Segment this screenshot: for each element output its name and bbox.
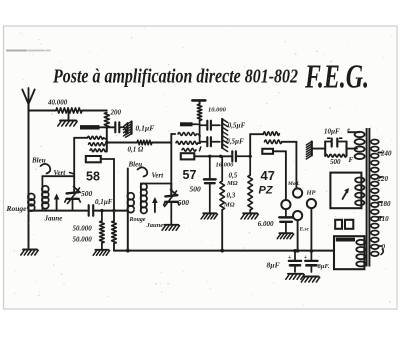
resistor R1 40.000 <box>47 99 82 114</box>
svg-text:10.000: 10.000 <box>208 107 227 114</box>
svg-text:+: + <box>304 255 308 261</box>
svg-text:0,3: 0,3 <box>227 192 236 200</box>
svg-text:Mod.: Mod. <box>287 181 300 187</box>
ground G5 stage2 <box>162 225 179 231</box>
chassis hatch tone <box>306 142 312 160</box>
label 8uF left <box>267 261 280 270</box>
svg-text:0,5µF: 0,5µF <box>228 122 246 130</box>
svg-text:58: 58 <box>86 170 100 184</box>
svg-text:240: 240 <box>380 150 392 158</box>
wire coil top link stage1 <box>42 175 74 177</box>
speaker box thick bar <box>336 238 355 242</box>
wire R1 to node <box>82 110 107 112</box>
label 0,5uF lower <box>226 138 244 146</box>
svg-text:0,1µF: 0,1µF <box>136 124 155 133</box>
label 10uF <box>324 128 350 136</box>
label Rouge stage1 <box>6 204 28 213</box>
tube 47 screen box <box>262 149 273 154</box>
label 16.000 <box>216 162 235 169</box>
label 0,5 MΩ <box>226 172 238 188</box>
svg-text:47: 47 <box>261 168 275 183</box>
label 0,5uF upper <box>228 122 246 130</box>
svg-text:110: 110 <box>379 215 390 223</box>
tap 180 <box>378 200 391 208</box>
label 6.000 <box>258 220 274 228</box>
pin square b <box>345 220 353 229</box>
svg-text:PZ: PZ <box>259 185 274 197</box>
label Jaune stage2 <box>146 222 164 229</box>
wire C2 to stage2 <box>93 209 128 212</box>
capacitor C6 cathode 57 <box>204 179 216 212</box>
speaker winding <box>356 240 365 267</box>
svg-text:0,5µF: 0,5µF <box>226 138 244 146</box>
ground G7 <box>241 213 258 219</box>
svg-text:Vert: Vert <box>152 172 165 180</box>
label 500 VC1 <box>81 189 93 198</box>
mains secondary winding <box>371 140 379 257</box>
output transformer primary <box>348 132 364 159</box>
label HP <box>306 190 317 197</box>
tuning coil secondary stage1 <box>42 176 49 210</box>
label 500 VC2 <box>178 198 190 207</box>
filter cap 8uF left <box>288 251 301 272</box>
tube 58 label <box>86 170 100 184</box>
svg-text:MΩ: MΩ <box>226 180 238 187</box>
ground bus <box>114 249 334 253</box>
jack A <box>281 200 290 209</box>
plate choke scribble 47 <box>263 132 281 144</box>
label 0,1uF C1 <box>136 124 155 133</box>
tube 57 label <box>183 168 197 182</box>
plate scribbles stage2 <box>171 133 201 152</box>
resistor R3 0,1 ohm <box>128 140 153 153</box>
wire stage2 grid vertical <box>170 134 172 195</box>
ground G3 <box>93 250 109 256</box>
svg-text:50.000: 50.000 <box>73 225 93 233</box>
mains hatched bar <box>222 119 228 152</box>
tap 220 <box>377 175 389 183</box>
label Vert stage1 <box>54 169 75 177</box>
svg-text:8µF: 8µF <box>267 261 280 270</box>
wire V3 stage2 left vertical <box>126 169 130 253</box>
label Vert stage2 <box>152 172 165 180</box>
lead curl Bleu stage1 <box>41 164 51 174</box>
capacitor C3 0,5uF upper <box>207 121 220 130</box>
svg-text:180: 180 <box>380 200 391 208</box>
rectifier winding <box>355 178 364 206</box>
capacitor C7 6.000 <box>279 217 293 232</box>
svg-text:40.000: 40.000 <box>47 99 68 107</box>
svg-text:F: F <box>349 156 354 164</box>
resistor R6 10.000 <box>197 104 226 121</box>
speaker box <box>334 236 364 269</box>
resistor R7 0,5M <box>220 156 225 252</box>
wire antenna to R1 <box>29 110 57 112</box>
resistor R8 0,3M <box>248 156 253 212</box>
hatched electrode C1 <box>124 122 132 138</box>
resistor R2 200 <box>104 109 121 128</box>
label 500 cathode 57 <box>190 185 202 194</box>
jack C <box>293 211 302 220</box>
svg-text:8µF.: 8µF. <box>318 263 330 270</box>
jack B <box>293 188 302 197</box>
wire grid vertical stage1 <box>73 138 75 176</box>
label PZ <box>259 185 274 197</box>
jack D HP <box>307 199 316 208</box>
rectifier arrow <box>343 188 350 199</box>
wire chassis to tone box <box>312 148 325 150</box>
resistor R5 50.000 lower <box>112 221 117 251</box>
filter cap 8uF right <box>304 251 318 272</box>
faint header microtext <box>7 49 50 51</box>
label E.sc <box>299 227 310 233</box>
tube 58 grid box <box>86 156 101 162</box>
svg-text:0,1µF: 0,1µF <box>95 198 113 206</box>
wire R6 down <box>200 121 206 142</box>
wire plate 57 to C5 <box>194 155 231 158</box>
svg-text:6.000: 6.000 <box>258 220 274 228</box>
svg-text:F.E.G.: F.E.G. <box>304 59 369 96</box>
svg-text:Jaune: Jaune <box>44 215 63 223</box>
svg-text:220: 220 <box>377 175 389 183</box>
tube 47 label <box>261 168 275 183</box>
svg-text:Rouge: Rouge <box>129 217 146 223</box>
svg-text:57: 57 <box>183 168 197 182</box>
wire jack D to bus <box>310 208 314 253</box>
cathode 57 vertical <box>209 156 211 178</box>
label Bleu stage2 <box>128 161 143 169</box>
earth tee <box>192 100 205 104</box>
variable capacitor VC1 500 <box>65 176 81 210</box>
label Jaune stage1 <box>44 215 63 223</box>
capacitor C8 10uF <box>328 138 342 146</box>
coil secondary stage2 <box>141 184 147 214</box>
svg-text:16.000: 16.000 <box>216 162 235 169</box>
coupling arrow stage2 <box>152 197 158 212</box>
logo F.E.G. <box>304 59 369 96</box>
label 50.000 b <box>73 236 93 244</box>
label Rouge stage2 <box>129 217 146 223</box>
svg-text:0,5: 0,5 <box>229 172 238 180</box>
coil primary stage2 <box>127 193 134 213</box>
svg-text:Poste à amplification directe: Poste à amplification directe 801-802 <box>52 66 298 88</box>
grid-cap thick bar stage2 <box>180 122 200 126</box>
ground G1 antenna <box>21 250 38 256</box>
label Mod <box>287 181 300 187</box>
wire V2 vertical <box>112 159 115 221</box>
tap 0 <box>378 243 385 255</box>
wire bar to C1 <box>100 126 115 129</box>
wire scribble to grid lead <box>74 137 87 139</box>
capacitor C2 0,1uF series <box>89 198 113 216</box>
ground G8 <box>277 233 293 239</box>
wire cathode bus stage1 <box>29 210 88 212</box>
rectifier box <box>330 173 361 209</box>
label 8uF right <box>318 263 330 270</box>
tone box resistor-capacitor <box>325 142 346 158</box>
wire antenna down-lead <box>28 111 30 249</box>
wire grid 47 up <box>249 134 252 158</box>
plate coil scribbles stage1 <box>88 136 107 151</box>
pin square a <box>335 220 342 229</box>
wire node to R3 <box>107 142 137 144</box>
coupling arrow stage1 <box>54 194 60 211</box>
capacitor C1 0,1uF <box>115 122 124 132</box>
svg-text:200: 200 <box>110 109 122 117</box>
svg-text:HP: HP <box>306 190 317 197</box>
ground G2 stub <box>58 111 77 127</box>
wire choke to jack <box>282 142 297 188</box>
tuning coil primary stage1 <box>28 194 35 212</box>
label 500 tone <box>330 156 354 166</box>
label 0,3 MΩ <box>223 192 236 209</box>
svg-text:MΩ: MΩ <box>223 202 235 209</box>
label 50.000 a <box>73 225 93 233</box>
svg-text:500: 500 <box>190 185 202 194</box>
wire jack A down <box>285 209 287 216</box>
variable capacitor VC2 500 <box>164 184 180 225</box>
wire tone box to OT <box>347 148 357 150</box>
svg-text:Rouge: Rouge <box>6 204 28 213</box>
label Bleu stage1 <box>31 157 46 165</box>
svg-text:+: + <box>288 255 292 261</box>
svg-text:50.000: 50.000 <box>73 236 93 244</box>
capacitor C5 16.000 coupling <box>232 151 250 161</box>
svg-text:10µF: 10µF <box>324 128 340 136</box>
wire to choke <box>250 133 263 135</box>
tap 110 <box>378 215 389 223</box>
capacitor C4 0,5uF lower <box>207 137 220 146</box>
svg-text:0,1 Ω: 0,1 Ω <box>128 146 145 154</box>
ground G9 wide <box>286 274 320 282</box>
resistor R4 50.000 grounded <box>100 211 105 249</box>
grid-cap thick bar <box>80 125 100 129</box>
wire coil link stage2 <box>141 183 171 185</box>
svg-text:E.sc: E.sc <box>299 227 310 233</box>
tube 57 grid box <box>181 153 195 159</box>
svg-text:Jaune: Jaune <box>146 222 164 229</box>
wire R3 to stage2 grid <box>152 142 171 144</box>
wire box 47 <box>273 151 286 200</box>
transformer core <box>367 128 370 267</box>
svg-text:500: 500 <box>81 189 93 198</box>
svg-text:500: 500 <box>178 198 190 207</box>
node junction main wire <box>105 141 109 145</box>
wire jack C to bus <box>296 220 300 252</box>
title Poste a amplification directe 801-802 <box>52 66 298 88</box>
wire box to V2 <box>101 158 114 160</box>
antenna <box>22 88 34 112</box>
ground G6 <box>201 213 217 219</box>
wire node down <box>106 127 108 151</box>
tap 240 <box>378 150 392 158</box>
lead curl Bleu stage2 <box>138 167 148 176</box>
